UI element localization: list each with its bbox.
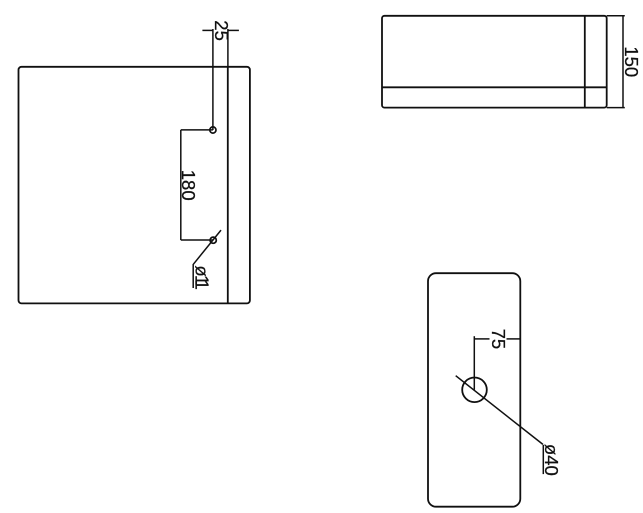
mounting hole H1: [210, 127, 216, 133]
svg-text:ø11: ø11: [191, 265, 212, 290]
svg-text:150: 150: [621, 46, 642, 77]
dimension 75 extension line: [473, 336, 475, 390]
side view fold line horizontal: [382, 86, 607, 88]
side view outline: [382, 16, 607, 108]
extension line 25 dim right: [227, 29, 229, 67]
leader line o11: [193, 230, 221, 264]
leader underline o40: [542, 445, 544, 474]
dimension 180 lines: [181, 130, 213, 240]
cable entry hole: [462, 378, 487, 403]
mounting hole H2: [210, 237, 216, 243]
svg-text:180: 180: [178, 170, 199, 201]
dimension line stubs 25: [202, 29, 239, 31]
leader underline o11: [192, 264, 194, 288]
svg-text:75: 75: [488, 329, 509, 350]
front view panel outline: [19, 67, 250, 304]
dimension 150 lines: [607, 16, 625, 108]
dimension 75 line: [474, 338, 520, 340]
svg-text:25: 25: [211, 20, 232, 41]
svg-text:ø40: ø40: [541, 444, 562, 476]
flange fold line: [227, 67, 229, 304]
leader line o40: [456, 376, 543, 445]
gland plate outline: [428, 273, 520, 507]
hole centerline / extension line 25 dim left: [212, 29, 214, 130]
side view fold line vertical: [584, 16, 586, 108]
